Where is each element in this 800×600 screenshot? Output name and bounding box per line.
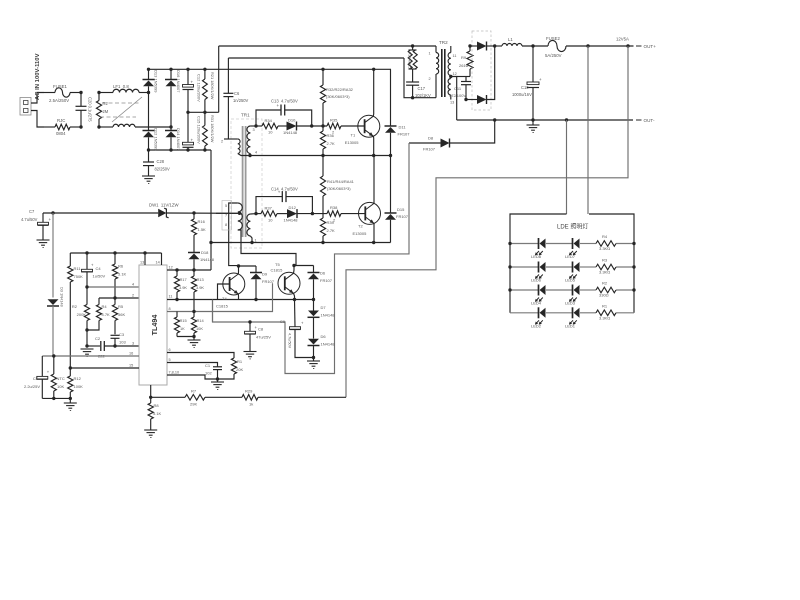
- svg-text:LED7: LED7: [565, 254, 576, 259]
- svg-text:D9: D9: [262, 272, 268, 277]
- capacitor C28 (Y-cap): [143, 150, 154, 176]
- label T4 C945: [216, 296, 229, 309]
- diode D6b (1N4148): [308, 339, 320, 358]
- svg-text:1.5K: 1.5K: [198, 227, 207, 232]
- diode D14 (bridge): [165, 127, 177, 150]
- wire VCC line (right): [166, 212, 239, 214]
- svg-text:330Ω: 330Ω: [599, 293, 609, 298]
- capacitor C20: [76, 93, 87, 128]
- LED LED3: [569, 285, 580, 302]
- svg-text:L1: L1: [508, 37, 513, 42]
- transistor T5 (C945): [278, 272, 300, 294]
- svg-text:R13: R13: [197, 277, 204, 282]
- TR2 secondary winding lower: [448, 79, 451, 100]
- svg-text:R4: R4: [602, 234, 608, 239]
- capacitor C10: [527, 46, 542, 120]
- label TL494 pin 7,8,10 number: [169, 371, 180, 375]
- svg-text:AC IN 100V-110V: AC IN 100V-110V: [35, 53, 41, 100]
- svg-text:3.3KΩ: 3.3KΩ: [599, 315, 610, 320]
- svg-text:FR107: FR107: [320, 278, 333, 283]
- wire T2 emitter: [373, 223, 375, 242]
- resistor RJC: [44, 124, 81, 130]
- wire T5 collector: [293, 266, 296, 274]
- label FUSE2 5A/250V: [545, 36, 562, 58]
- capacitor C9: [290, 300, 314, 358]
- svg-text:C2: C2: [95, 336, 101, 341]
- label TL494 pin 3 number: [132, 342, 134, 346]
- junction feedback riser x628: [626, 44, 629, 47]
- svg-text:3.3KΩ: 3.3KΩ: [599, 246, 610, 251]
- svg-text:7,8,10: 7,8,10: [169, 371, 180, 375]
- svg-text:2: 2: [132, 294, 134, 298]
- svg-text:R7: R7: [191, 389, 197, 394]
- svg-text:R14: R14: [197, 318, 205, 323]
- resistor R31: [203, 112, 208, 150]
- svg-text:RJC: RJC: [57, 118, 65, 123]
- svg-text:2.7K: 2.7K: [327, 141, 336, 146]
- svg-text:FUSE1: FUSE1: [53, 84, 67, 89]
- resistor R38: [327, 211, 365, 217]
- label R32/R22/RA32 30K: [326, 87, 354, 99]
- wire half-bridge midpoint: [250, 155, 391, 157]
- svg-text:82/250V: 82/250V: [155, 167, 171, 172]
- label C5 2.2u/25V: [24, 376, 40, 389]
- svg-text:C1815: C1815: [216, 304, 229, 309]
- label R21 180K/0.25W: [210, 72, 215, 100]
- svg-text:1: 1: [255, 239, 257, 243]
- svg-text:C1: C1: [205, 363, 211, 368]
- svg-text:T2: T2: [358, 224, 363, 229]
- label LED3: [565, 301, 576, 306]
- TR2 secondary winding upper: [448, 46, 451, 76]
- junction snubber top: [411, 44, 414, 47]
- svg-text:3: 3: [132, 342, 134, 346]
- svg-text:C17: C17: [418, 86, 426, 91]
- label LF1 0.8: [113, 84, 129, 89]
- svg-text:R1: R1: [237, 359, 243, 364]
- svg-text:OUT+: OUT+: [644, 44, 657, 49]
- svg-text:29K: 29K: [190, 402, 197, 407]
- junction C11 bottom: [464, 98, 467, 101]
- wire D10 to R35: [297, 125, 328, 127]
- svg-text:+: +: [191, 137, 194, 142]
- svg-text:3: 3: [253, 128, 255, 132]
- resistor R7 (39K): [151, 395, 242, 401]
- transformer TR2 label: [439, 40, 448, 45]
- svg-text:LED8: LED8: [531, 254, 542, 259]
- label R11 750K: [74, 266, 84, 279]
- label C7 4.7u/50V: [21, 209, 38, 222]
- junction OUT- LED riser: [565, 118, 568, 121]
- svg-text:R30 M315: R30 M315: [408, 52, 412, 69]
- junction R32 top rail: [321, 68, 324, 71]
- diode D13: [143, 69, 155, 92]
- diode D3: [47, 213, 59, 356]
- ground below R14: [188, 337, 201, 348]
- wire TR2 primary top feed: [219, 45, 436, 47]
- wire D12 to R38: [297, 213, 327, 215]
- svg-text:C12 120u/200V: C12 120u/200V: [197, 74, 202, 102]
- svg-text:E13005: E13005: [345, 140, 360, 145]
- junction rail R6: [113, 251, 116, 254]
- svg-text:C4: C4: [96, 266, 102, 271]
- svg-text:1k: 1k: [249, 402, 253, 407]
- label C10 1000u/16V: [512, 85, 532, 97]
- LED LED7: [569, 238, 580, 255]
- junction pin3 node: [85, 344, 88, 347]
- label D12 1N4148: [284, 205, 299, 223]
- label C9 4.7u/50V: [280, 319, 292, 349]
- svg-text:LED6: LED6: [531, 278, 542, 283]
- svg-text:C15 120u/200V: C15 120u/200V: [197, 116, 202, 144]
- resistor R9: [457, 46, 473, 77]
- wire LED row 1: [510, 243, 634, 245]
- label R3 3.3KΩ: [599, 258, 610, 275]
- svg-text:C9: C9: [280, 319, 286, 324]
- junction TR2 tap: [449, 75, 452, 78]
- label AC IN 100V-110V: [35, 53, 41, 100]
- svg-text:1N4148: 1N4148: [284, 218, 299, 223]
- label TL494 pin 16 number: [129, 352, 133, 356]
- svg-text:R32/R22/RA32: R32/R22/RA32: [326, 87, 354, 92]
- resistor R4 (LED row 1): [596, 241, 616, 247]
- label R36 2.7K: [327, 133, 336, 146]
- junction R17 bottom: [175, 298, 178, 301]
- TR2 center tap wire: [451, 77, 457, 121]
- svg-text:5.1K: 5.1K: [153, 411, 162, 416]
- label R16 1.5K: [198, 219, 207, 232]
- junction LED row 3 right: [632, 288, 635, 291]
- wire TL494 pin2: [99, 297, 139, 299]
- svg-text:5: 5: [225, 204, 227, 208]
- diode D8: [409, 120, 495, 148]
- svg-text:FR107: FR107: [398, 132, 411, 137]
- svg-text:R12: R12: [74, 376, 82, 381]
- wire feedback to pin11 node riser: [212, 300, 214, 323]
- junction LED row 2 left: [508, 265, 511, 268]
- svg-text:(30K/0603*3): (30K/0603*3): [327, 186, 351, 191]
- label L1: [508, 37, 513, 42]
- svg-text:10K: 10K: [57, 384, 64, 389]
- svg-text:13: 13: [450, 101, 454, 105]
- junction T5 collector node: [292, 264, 295, 267]
- svg-text:+: +: [301, 321, 304, 326]
- svg-text:D11: D11: [399, 125, 407, 130]
- ground below C7: [37, 240, 50, 247]
- svg-text:2.5A/250V: 2.5A/250V: [49, 98, 69, 103]
- svg-text:R2: R2: [602, 281, 608, 286]
- junction C1 gnd node: [216, 377, 219, 380]
- junction R8 top: [149, 396, 152, 399]
- svg-text:2.7K: 2.7K: [327, 228, 336, 233]
- label TL494 pin 15 number: [129, 364, 133, 368]
- svg-text:DW1 11V/1ZW: DW1 11V/1ZW: [149, 203, 179, 208]
- wire LED row 2: [510, 266, 634, 268]
- capacitor C8: [245, 322, 258, 352]
- svg-text:102/1KV: 102/1KV: [415, 93, 431, 98]
- wire TL494 bottom pin: [150, 385, 152, 397]
- svg-text:2: 2: [221, 140, 223, 144]
- svg-text:4: 4: [255, 151, 257, 155]
- junction mid R21/R31: [203, 111, 206, 114]
- ground below C1: [211, 379, 224, 389]
- TR2 primary winding: [436, 46, 439, 98]
- capacitor C5: [37, 356, 50, 398]
- label C11 472/100V: [449, 86, 466, 98]
- junction C20 top: [79, 91, 82, 94]
- wire TR2 return drop: [404, 58, 436, 98]
- label T2 E13005: [353, 224, 368, 237]
- svg-text:56K: 56K: [118, 312, 125, 317]
- junction D6/D7: [312, 298, 315, 301]
- transformer TR2 core: [442, 49, 445, 97]
- label TR1 pin 8: [225, 223, 227, 227]
- label C17 102/1KV: [415, 86, 431, 98]
- svg-text:3.9K: 3.9K: [179, 285, 187, 290]
- transistor T2 (E13005): [359, 202, 381, 224]
- label LED5: [565, 278, 576, 283]
- wire TL494 pin16: [42, 355, 139, 357]
- zener DW1: [158, 208, 168, 218]
- junction LED row 1 left: [508, 242, 511, 245]
- label R14 10K: [196, 318, 204, 331]
- resistor R17: [174, 270, 179, 300]
- label R1 20K: [236, 359, 243, 372]
- label C20 0.1u/275: [88, 97, 93, 122]
- label R9 261W: [459, 55, 469, 68]
- label C15 150u/200V: [197, 116, 202, 144]
- svg-text:C20 0.1u/275: C20 0.1u/275: [88, 97, 93, 122]
- diode D9: [250, 266, 262, 300]
- junction rail R39: [321, 241, 324, 244]
- junction NTC bottom: [52, 397, 55, 400]
- resistor R15: [174, 312, 179, 337]
- label R4 3.3KΩ: [599, 234, 610, 251]
- svg-text:3.9K: 3.9K: [196, 285, 204, 290]
- svg-text:+: +: [49, 217, 52, 222]
- LED LED6: [535, 262, 546, 279]
- svg-text:FUSE2: FUSE2: [546, 36, 560, 41]
- svg-text:C8: C8: [258, 327, 264, 332]
- svg-text:R2: R2: [72, 304, 78, 309]
- svg-text:R41/R44/RA41: R41/R44/RA41: [327, 179, 355, 184]
- junction midpoint T1/T2: [372, 154, 375, 157]
- ground below pin3 node: [81, 349, 94, 356]
- resistor R41 group: [320, 156, 325, 214]
- svg-text:D3 1N4148: D3 1N4148: [60, 287, 65, 307]
- junction D16 top: [169, 68, 172, 71]
- svg-text:12: 12: [453, 72, 457, 76]
- svg-text:(30K/0603*3): (30K/0603*3): [326, 94, 350, 99]
- IC U1 TL494 body: [139, 265, 167, 385]
- label R1 3.3KΩ: [599, 303, 610, 320]
- svg-text:NTC: NTC: [57, 376, 65, 381]
- svg-text:102: 102: [205, 371, 212, 376]
- diode D7: [308, 300, 320, 339]
- label R12 100K: [74, 376, 84, 389]
- resistor R1 (LED row 4): [596, 310, 616, 316]
- LED LED8: [535, 238, 546, 255]
- junction R9 top: [468, 44, 471, 47]
- svg-text:D14 1N4007: D14 1N4007: [176, 128, 181, 151]
- label NTC 10K: [57, 376, 65, 389]
- resistor R32 group: [320, 69, 325, 126]
- label R38 2.2: [330, 205, 338, 223]
- svg-text:4.7u/50V: 4.7u/50V: [21, 217, 38, 222]
- svg-text:D16 1N4007: D16 1N4007: [176, 70, 181, 93]
- svg-text:100K: 100K: [74, 384, 84, 389]
- capacitor C1 (102): [213, 367, 222, 379]
- junction R2 bottom: [97, 125, 100, 128]
- capacitor C15 (bulk lower): [183, 112, 194, 150]
- junction T4 collector node: [237, 264, 240, 267]
- svg-text:2: 2: [429, 77, 431, 81]
- resistor R3 (LED row 2): [596, 264, 616, 270]
- label D12 1N5399: [154, 128, 159, 151]
- label TL494 pin 8 number: [169, 307, 171, 311]
- ground below R12: [64, 398, 77, 410]
- TR1 aux pin frame: [222, 201, 232, 231]
- svg-text:TR2: TR2: [439, 40, 448, 45]
- svg-text:C13 4.7u/50V: C13 4.7u/50V: [271, 99, 298, 104]
- junction R14 gnd: [192, 335, 195, 338]
- svg-text:1N4148: 1N4148: [321, 313, 336, 318]
- svg-text:4: 4: [132, 283, 134, 287]
- ground below C8: [244, 352, 257, 359]
- fuse FUSE2: [548, 40, 634, 51]
- junction R6/pin2: [113, 296, 116, 299]
- wire bridge mid rail: [188, 111, 219, 113]
- capacitor C2 (in pin3 line): [87, 341, 139, 351]
- TL494 pin 13 lead: [140, 253, 145, 265]
- svg-text:D10: D10: [288, 118, 296, 123]
- label R41/R44/RA41 30K: [327, 179, 355, 191]
- svg-text:LF1 0.8: LF1 0.8: [113, 84, 129, 89]
- svg-text:C6: C6: [234, 91, 240, 96]
- junction D14 bottom: [169, 148, 172, 151]
- diode D12 (bridge): [143, 93, 155, 151]
- wire bridge bottom rail: [149, 149, 212, 151]
- label R6 5.1K: [118, 264, 127, 277]
- resistor R2 (LED row 3): [596, 287, 616, 293]
- junction AC-D14: [169, 125, 172, 128]
- svg-text:1n/250V: 1n/250V: [233, 98, 249, 103]
- junction D6b bottom: [312, 356, 315, 359]
- svg-text:7: 7: [225, 214, 227, 218]
- wire TL494 top rail: [70, 252, 161, 254]
- wire T4 collector to D9: [239, 265, 257, 267]
- svg-text:R1: R1: [602, 303, 608, 308]
- junction R21 top: [203, 68, 206, 71]
- svg-text:47u/25V: 47u/25V: [256, 335, 271, 340]
- svg-text:1u/50V: 1u/50V: [93, 274, 106, 279]
- wire riser B- to pin12 line: [210, 150, 212, 270]
- label TR2 pin 2: [429, 77, 431, 81]
- svg-text:R39: R39: [327, 220, 335, 225]
- junction OUT+ riser x588: [586, 44, 589, 47]
- svg-text:D7: D7: [321, 305, 327, 310]
- svg-text:5.1K: 5.1K: [118, 272, 127, 277]
- svg-text:R35: R35: [330, 118, 338, 123]
- diode D18: [188, 249, 200, 271]
- junction C8 top: [248, 320, 251, 323]
- svg-text:14: 14: [156, 261, 160, 265]
- svg-text:R16: R16: [198, 219, 206, 224]
- label C6 1n/250V: [233, 91, 249, 103]
- junction rail left riser: [209, 241, 212, 244]
- svg-text:R31 180K/1/2W: R31 180K/1/2W: [210, 115, 215, 143]
- label C4 1u/50V: [93, 266, 106, 279]
- junction C12 top: [186, 68, 189, 71]
- resistor R6: [112, 253, 117, 298]
- label LED4: [531, 301, 542, 306]
- label R30: [408, 52, 412, 69]
- TL494 pin 14 lead: [156, 253, 162, 265]
- TR1 winding aux (lower-left pins 5-7-8): [216, 203, 296, 266]
- wire T1 collector: [372, 69, 374, 116]
- junction R11/R12/pin15: [69, 366, 72, 369]
- svg-text:LED5: LED5: [565, 278, 576, 283]
- svg-text:750K: 750K: [74, 274, 84, 279]
- label C14 4.7u/50V: [271, 187, 298, 192]
- wire TL494 pin12: [167, 269, 211, 271]
- svg-text:C3: C3: [119, 332, 125, 337]
- svg-text:10: 10: [268, 130, 273, 135]
- label D6 FR107: [320, 271, 333, 284]
- svg-text:OUT-: OUT-: [644, 118, 655, 123]
- svg-text:C7: C7: [29, 209, 35, 214]
- LED box outline: [510, 214, 634, 313]
- label TR1 pin 5: [225, 204, 227, 208]
- capacitor C4: [82, 253, 95, 287]
- svg-text:R6: R6: [118, 264, 124, 269]
- svg-text:R3: R3: [602, 258, 608, 263]
- TR1 winding S1 (right upper, pins 3-4): [247, 126, 256, 156]
- TR1 winding S2 (right lower, pin 1): [247, 214, 256, 243]
- label D9 FR107: [262, 272, 275, 285]
- label R4 4.7K: [102, 304, 111, 317]
- thermistor NTC 10K: [51, 356, 56, 398]
- label R31 180K/0.25W: [210, 115, 215, 143]
- junction midpoint R36: [321, 154, 324, 157]
- wire OUT- rail: [457, 119, 633, 121]
- capacitor C6: [223, 58, 233, 139]
- svg-text:+: +: [539, 77, 542, 82]
- junction C10 top: [531, 44, 534, 47]
- svg-text:D6: D6: [321, 334, 327, 339]
- resistor R5 (56K): [112, 298, 117, 334]
- svg-text:R11: R11: [74, 266, 82, 271]
- node TR1-S2/R37/C14: [254, 212, 257, 215]
- label C8 47u/25V: [256, 327, 271, 340]
- wire TL494 pins 7,8,10: [167, 375, 218, 379]
- capacitor C17: [406, 82, 419, 98]
- resistor R29 (1k): [242, 395, 346, 401]
- svg-text:D15: D15: [397, 207, 405, 212]
- svg-text:3.3KΩ: 3.3KΩ: [599, 270, 610, 275]
- wire TL494 pin11 / driver bus: [167, 299, 314, 301]
- junction midpoint D11/D15: [389, 154, 392, 157]
- output rectifier dashed box: [472, 31, 491, 110]
- svg-text:11: 11: [169, 295, 173, 299]
- junction LED row 1 right: [632, 242, 635, 245]
- svg-text:LED3: LED3: [565, 301, 576, 306]
- svg-text:+: +: [91, 263, 94, 268]
- junction R12 bottom: [69, 397, 72, 400]
- svg-text:12: 12: [169, 266, 173, 270]
- svg-text:C14 4.7u/50V: C14 4.7u/50V: [271, 187, 298, 192]
- junction C15 bottom: [186, 148, 189, 151]
